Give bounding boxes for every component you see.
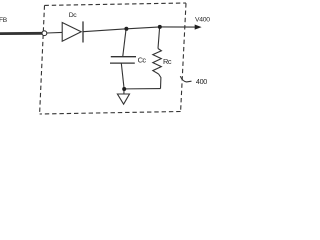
svg-text:Dc: Dc: [69, 12, 78, 19]
resistor Rc top lead: [158, 28, 160, 49]
svg-text:400: 400: [196, 77, 207, 86]
svg-text:Cc: Cc: [138, 56, 147, 65]
node FB boundary circle: [42, 31, 47, 36]
svg-text:FB: FB: [0, 17, 8, 24]
junction bottom node dot: [122, 87, 126, 91]
wire cathode to node A: [83, 29, 126, 32]
leader line to 400: [180, 76, 191, 82]
capacitor Cc bottom plate: [110, 62, 135, 64]
svg-text:V400: V400: [195, 17, 210, 24]
capacitor Cc top plate: [111, 56, 136, 58]
wire FB thick input lead: [0, 32, 42, 35]
diode Dc triangle: [62, 23, 81, 42]
dashed box right edge: [181, 3, 186, 111]
ground symbol triangle: [117, 94, 129, 104]
junction node B dot: [158, 25, 162, 29]
wire node B to output arrow: [160, 26, 196, 28]
junction node A dot: [124, 27, 128, 31]
dashed box bottom edge: [40, 112, 181, 115]
dashed box left edge: [40, 5, 45, 114]
dashed box top edge: [45, 3, 187, 5]
output arrowhead V400: [195, 25, 202, 30]
svg-text:Rc: Rc: [163, 57, 172, 66]
resistor Rc zigzag body: [153, 49, 162, 75]
resistor Rc bottom lead: [159, 74, 161, 89]
diode Dc cathode bar: [82, 21, 84, 42]
wire bottom return: [124, 88, 160, 90]
ground stem: [123, 89, 125, 94]
wire capacitor bottom lead: [121, 63, 124, 89]
wire node A to node B: [126, 27, 159, 29]
wire node to diode anode: [47, 31, 62, 34]
wire capacitor top lead: [123, 30, 126, 57]
